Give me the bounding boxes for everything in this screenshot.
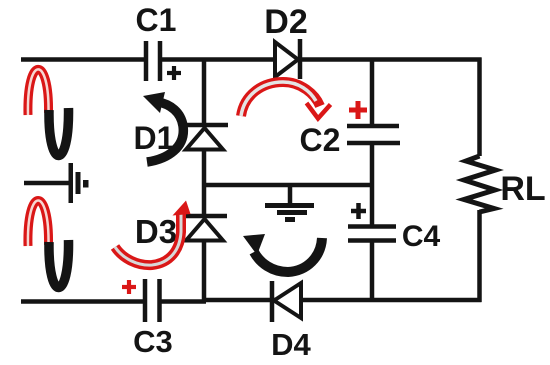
wire C2 column top: [370, 58, 375, 126]
svg-text:C3: C3: [133, 324, 173, 359]
capacitor C1 plates: [144, 41, 149, 81]
svg-text:D4: D4: [271, 327, 311, 362]
battery symbol dot: [83, 180, 89, 188]
wire between D1 and D3: [202, 147, 207, 216]
ground: [265, 185, 314, 220]
source sine bottom (red half): [28, 200, 49, 246]
wire right column lower: [477, 210, 482, 302]
wire top-middle: [160, 57, 276, 62]
wire bottom-right run: [205, 298, 482, 303]
wire top-right: [299, 57, 482, 62]
battery symbol long bar: [69, 163, 74, 203]
wire bottom C3-to-junction: [159, 299, 206, 304]
diode D3: [185, 216, 227, 241]
capacitor C2 plus (red): [349, 101, 367, 119]
diode D4: [272, 281, 301, 322]
capacitor C1 plus: [167, 66, 181, 80]
source sine top (black half): [49, 108, 69, 156]
svg-text:C1: C1: [136, 2, 177, 38]
diode D1: [184, 125, 228, 150]
battery symbol short bar: [76, 172, 81, 194]
wire below C4: [370, 240, 375, 300]
wire diode column x204: [202, 58, 207, 125]
source sine top (red half): [28, 69, 49, 115]
red current arrow near D2: [241, 82, 331, 119]
black current arrow near D4: [243, 234, 322, 272]
svg-text:RL: RL: [500, 170, 545, 208]
wire middle horizontal: [204, 183, 372, 188]
svg-text:D3: D3: [135, 213, 177, 250]
svg-text:C2: C2: [300, 122, 341, 158]
black current arrow near D1: [143, 92, 183, 162]
svg-text:C4: C4: [402, 220, 441, 253]
wire below D3: [202, 238, 207, 302]
wire C2-to-C4 column: [370, 143, 375, 227]
wire source stub: [24, 181, 69, 186]
capacitor C4 plates: [348, 224, 396, 229]
capacitor C4 plus: [351, 203, 366, 219]
wire top-left: [21, 57, 146, 62]
capacitor C3 plus (red): [122, 280, 136, 294]
wire bottom-left: [21, 299, 146, 304]
capacitor C2 plates: [347, 124, 399, 129]
capacitor C3 plates: [143, 279, 148, 322]
wire right column: [477, 58, 482, 157]
svg-text:D2: D2: [264, 3, 307, 41]
source sine bottom (black half): [49, 240, 69, 288]
resistor RL zigzag: [464, 156, 496, 212]
red current arrow near D3: [115, 201, 191, 266]
diode D2: [275, 39, 300, 79]
